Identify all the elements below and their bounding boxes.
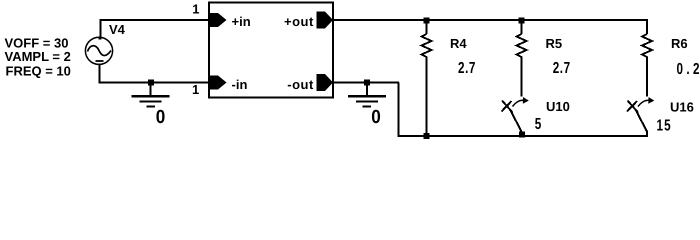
svg-text:-in: -in [232,77,248,92]
svg-text:V4: V4 [109,22,126,37]
svg-text:R5: R5 [546,36,563,51]
svg-text:VAMPL = 2: VAMPL = 2 [5,49,71,64]
svg-text:1: 1 [192,82,199,97]
svg-text:2.7: 2.7 [553,60,571,77]
svg-text:R4: R4 [450,36,467,51]
svg-text:+out: +out [284,14,314,29]
svg-text:1: 1 [192,2,199,17]
svg-text:0: 0 [156,107,166,128]
svg-text:0.2: 0.2 [677,61,700,78]
svg-text:5: 5 [535,116,542,133]
svg-text:+in: +in [232,14,251,29]
svg-text:2.7: 2.7 [458,60,476,77]
svg-text:FREQ = 10: FREQ = 10 [6,63,71,78]
svg-text:-out: -out [287,77,314,92]
svg-text:15: 15 [657,118,672,135]
svg-text:U16: U16 [670,100,694,115]
svg-text:VOFF = 30: VOFF = 30 [5,35,69,50]
svg-text:0: 0 [371,107,381,128]
svg-text:R6: R6 [671,36,688,51]
svg-text:U10: U10 [546,99,570,114]
